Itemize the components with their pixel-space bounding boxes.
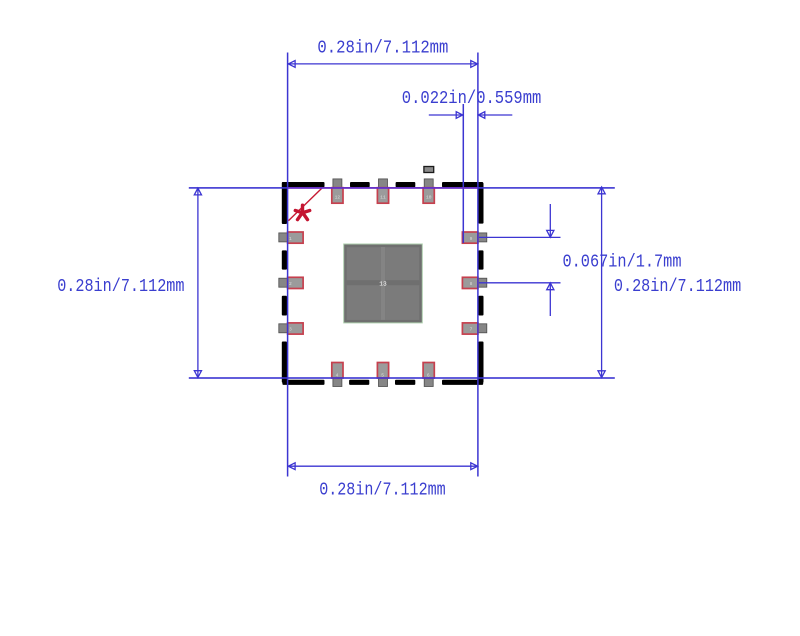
dimension top 0.28in line [288, 61, 478, 68]
terminal pin 3 [279, 324, 296, 333]
svg-text:12: 12 [335, 194, 341, 200]
dimension right 0.28in line [598, 187, 605, 378]
thermal pad 13 [344, 244, 423, 323]
dimension 0.022in arrows [429, 112, 513, 119]
pad 11 [377, 188, 388, 204]
package outline bottom edge dashes [282, 380, 483, 385]
terminal pin 1 [279, 233, 296, 242]
pin 1 indicator line [288, 188, 322, 221]
extension line bottom horizontal y=377.9 [189, 377, 615, 379]
dimension bottom 0.28in line [288, 463, 478, 470]
extension line right vertical x=477.9 [477, 53, 479, 477]
extension line top horizontal y=187.7 [189, 187, 615, 189]
dimension left 0.28in line [194, 188, 201, 377]
terminal pin 7 [469, 324, 486, 333]
extension line pad-left vertical x=463.2 [463, 104, 465, 243]
terminal pin 6 [424, 369, 433, 386]
terminal pin 2 [279, 278, 296, 287]
pad 3 [288, 323, 304, 334]
pad 7 [462, 323, 478, 334]
terminal pin 8 [469, 278, 486, 287]
pin 1 asterisk [295, 205, 309, 219]
pad 4 [332, 363, 343, 379]
svg-text:0.28in/7.112mm: 0.28in/7.112mm [57, 276, 184, 297]
svg-text:8: 8 [470, 281, 473, 287]
svg-text:0.28in/7.112mm: 0.28in/7.112mm [317, 38, 448, 59]
terminal pin 9 [469, 233, 486, 242]
top edge overlap purple segment [288, 187, 478, 189]
terminal pin 11 [379, 179, 388, 196]
svg-text:3: 3 [289, 327, 292, 333]
svg-text:1: 1 [289, 236, 292, 242]
pad 5 [377, 363, 388, 379]
terminal pin 4 [333, 369, 342, 386]
pad 8 [462, 277, 478, 288]
dimension 0.067in leader lines [479, 204, 561, 316]
terminal pin 5 [379, 369, 388, 386]
package outline left edge dashes [282, 182, 287, 383]
svg-text:10: 10 [426, 194, 432, 200]
pad 1 [288, 232, 304, 243]
pad 9 [462, 232, 478, 243]
extension line left vertical x=287.5 [287, 53, 289, 477]
svg-text:0.28in/7.112mm: 0.28in/7.112mm [319, 480, 446, 501]
pad 10 [423, 188, 434, 204]
terminal pin 10 [424, 179, 433, 196]
package outline top edge dashes [282, 182, 483, 187]
svg-text:13: 13 [379, 280, 387, 287]
svg-text:2: 2 [289, 281, 292, 287]
pin1-side orientation marker [424, 167, 434, 173]
pad 2 [288, 277, 304, 288]
svg-text:7: 7 [470, 327, 473, 333]
svg-text:0.022in/0.559mm: 0.022in/0.559mm [402, 88, 542, 109]
svg-text:0.28in/7.112mm: 0.28in/7.112mm [614, 276, 741, 297]
svg-text:9: 9 [470, 236, 473, 242]
pad 6 [423, 363, 434, 379]
package outline right edge dashes [478, 183, 483, 383]
pad 12 [332, 188, 343, 204]
svg-text:0.067in/1.7mm: 0.067in/1.7mm [563, 252, 682, 273]
svg-text:11: 11 [380, 194, 386, 200]
terminal pin 12 [333, 179, 342, 196]
